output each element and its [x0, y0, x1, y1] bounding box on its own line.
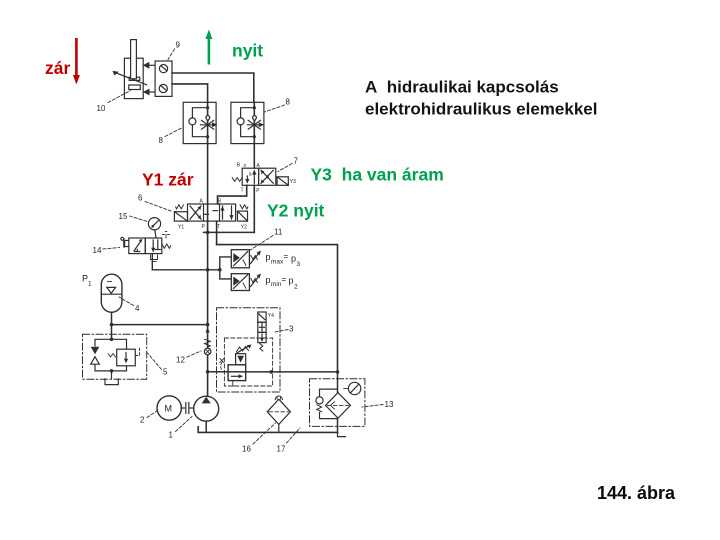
cooler U17 diamond — [326, 393, 351, 419]
pressure rail horizontal (valve6 P / valve7 P) — [204, 231, 255, 233]
label 10 — [97, 91, 131, 114]
node block5 outlet — [110, 369, 114, 373]
svg-text:p: p — [291, 254, 296, 264]
svg-text:5: 5 — [163, 368, 168, 377]
wire tee up to pmax switch — [220, 257, 232, 270]
accumulator rail to pump line — [112, 324, 208, 326]
label 5 — [148, 353, 169, 377]
cooler block U13 boundary (dash-dot) — [310, 379, 365, 427]
valve7 solenoid Y3 box — [277, 177, 296, 186]
wire valve7 T down-left to valve6 port B — [218, 185, 247, 204]
svg-text:4: 4 — [135, 304, 140, 313]
pilot relief valve upper box with poppet — [236, 354, 246, 365]
svg-text:13: 13 — [385, 400, 394, 409]
label 13 — [362, 400, 394, 409]
svg-text:3: 3 — [289, 325, 294, 334]
text pmax = p3 — [266, 252, 301, 268]
wire block9 to cylinder upper with arrowhead — [143, 62, 156, 69]
svg-text:14: 14 — [93, 246, 102, 255]
label 7 — [278, 157, 299, 172]
svg-text:min: min — [271, 281, 282, 288]
svg-text:6: 6 — [138, 194, 143, 203]
label 8 left — [159, 128, 183, 146]
valve6 spring + solenoid Y1 left — [174, 205, 187, 221]
valve14 push button actuator — [121, 237, 129, 246]
label 16 — [242, 423, 276, 454]
label 11 — [247, 228, 283, 253]
svg-text:P: P — [202, 224, 206, 230]
node relief rail mid — [269, 370, 273, 374]
svg-text:Y2: Y2 — [241, 225, 247, 231]
block5 bottom bar — [95, 365, 127, 371]
svg-text:8: 8 — [159, 136, 164, 145]
cooler bypass loop — [316, 389, 338, 419]
lever arrow through cylinder — [112, 71, 146, 85]
wire block9 right top to box8R — [172, 73, 254, 102]
tank rail bottom — [198, 427, 337, 433]
text Y4 — [268, 313, 274, 319]
svg-text:elektrohidraulikus elemekkel: elektrohidraulikus elemekkel — [365, 100, 597, 119]
pump suction line — [205, 421, 207, 432]
pressure gauge U15 — [148, 218, 160, 238]
svg-text:b: b — [267, 175, 270, 181]
svg-text:2: 2 — [140, 416, 145, 425]
label 12 — [176, 351, 201, 365]
svg-text:B: B — [237, 163, 241, 169]
svg-text:9: 9 — [176, 41, 181, 50]
node accumulator tee — [110, 323, 114, 327]
solenoid valve U6 (4/3, Y1/Y2) body — [188, 204, 236, 221]
solenoid valve Y4 stack — [258, 312, 266, 351]
svg-text:Y1 zár: Y1 zár — [142, 170, 194, 190]
pressure switch pmin — [231, 274, 261, 291]
cylinder body (valve 10) — [124, 58, 143, 98]
node relief rail right — [336, 370, 340, 374]
svg-text:15: 15 — [119, 212, 128, 221]
svg-text:=: = — [282, 275, 287, 284]
svg-text:T: T — [217, 224, 220, 230]
solenoid valve U7 (4/2, Y3) body — [242, 168, 276, 185]
block5 drain to tank — [111, 371, 113, 379]
gauge in cooler block — [344, 382, 361, 394]
svg-text:Y3: Y3 — [290, 179, 296, 185]
svg-text:1: 1 — [169, 431, 174, 440]
label 2 — [140, 410, 159, 425]
valve7 port labels — [237, 163, 270, 195]
svg-text:8: 8 — [286, 98, 291, 107]
check valve in block5 — [91, 347, 100, 364]
node P junction — [206, 231, 210, 235]
label 4 — [119, 297, 140, 313]
node pump line x relief rail — [206, 370, 210, 374]
valve14 vent symbol above spring — [163, 232, 170, 239]
svg-text:12: 12 — [176, 356, 185, 365]
block5 top bar — [95, 339, 127, 349]
pump pressure line vertical — [207, 232, 209, 396]
wire tee down to pmin switch — [220, 270, 232, 279]
svg-text:A hidraulikai kapcsolás: A hidraulikai kapcsolás — [365, 78, 559, 97]
throttle-check box 8 right — [231, 102, 264, 143]
wire valve7 P down to pressure rail — [253, 185, 255, 232]
text pmin = p2 — [266, 275, 299, 291]
svg-text:p: p — [266, 275, 271, 285]
svg-text:p: p — [266, 252, 271, 262]
svg-text:p: p — [289, 276, 294, 286]
pilot drain x symbol — [220, 359, 224, 371]
label 15 — [119, 212, 148, 222]
wire block9 right bottom to box8L — [172, 84, 208, 102]
svg-text:max: max — [271, 259, 284, 266]
node switch tee — [218, 268, 222, 272]
electric motor U2 — [157, 396, 181, 420]
throttle-check box 8 left — [183, 102, 217, 143]
node block5 inlet — [110, 338, 114, 342]
valve6 spring + solenoid Y2 right — [238, 205, 248, 221]
relief valve square in block5 — [108, 348, 140, 366]
valve7 spring left — [232, 178, 242, 182]
svg-text:Y2 nyit: Y2 nyit — [267, 201, 325, 221]
valve6 port labels — [178, 199, 247, 231]
tank symbol under block5 — [105, 379, 118, 385]
return rail to right column — [217, 245, 338, 372]
valve14 output rail to pressure switches — [152, 254, 220, 270]
svg-text:T: T — [241, 188, 244, 194]
svg-text:M: M — [165, 404, 173, 414]
flow arrowhead on pump line — [205, 328, 209, 333]
label 9 — [168, 41, 181, 60]
wire box8L down to valve6 port A — [207, 144, 209, 233]
cylinder rod — [131, 40, 137, 79]
cooler return vertical — [337, 372, 339, 432]
svg-text:Y3 ha van áram: Y3 ha van áram — [311, 165, 444, 185]
block3 inner pilot boundary (dashed) — [224, 338, 272, 386]
svg-text:Y4: Y4 — [268, 313, 274, 319]
label 17 — [277, 428, 301, 454]
svg-text:Y1: Y1 — [178, 225, 184, 231]
svg-text:nyit: nyit — [232, 41, 263, 61]
svg-text:144. ábra: 144. ábra — [597, 483, 676, 503]
wire box8R down to valve7 port A — [253, 144, 255, 169]
wire block9 to cylinder lower with arrowhead — [143, 89, 155, 96]
coupling motor-pump — [181, 403, 193, 414]
text P1 — [82, 274, 92, 288]
svg-text:a: a — [249, 172, 252, 178]
node pump line x accumulator rail — [206, 323, 210, 327]
arrow zar (red down arrow) — [73, 38, 80, 85]
wire valve6 T down to return rail — [216, 221, 218, 245]
svg-text:zár: zár — [45, 58, 70, 78]
label 8 right — [265, 98, 291, 113]
tank rail step right — [338, 432, 346, 436]
pressure switch U11 pmax — [231, 250, 261, 268]
svg-text:7: 7 — [294, 157, 299, 166]
svg-text:1: 1 — [88, 281, 92, 288]
svg-text:17: 17 — [277, 445, 286, 454]
main relief rail horizontal — [208, 371, 338, 373]
block U3 boundary (dash-dot) — [217, 308, 281, 392]
filter U16 — [267, 396, 290, 432]
node pump line x valve14 rail — [206, 268, 210, 272]
accumulator stem — [111, 312, 113, 339]
accumulator U4 — [101, 274, 122, 312]
valve14 spring right — [162, 244, 171, 248]
label 1 — [169, 417, 193, 440]
manual valve U14 (3/2) — [129, 238, 162, 254]
valve U12 on pump line (spring + ball) — [204, 339, 211, 355]
arrow nyit (green up arrow) — [205, 30, 212, 65]
svg-text:16: 16 — [242, 445, 251, 454]
pilot check block U9 — [155, 61, 172, 96]
valve14 exhaust symbol below — [151, 255, 158, 262]
svg-text:2: 2 — [294, 284, 298, 291]
label 6 — [138, 194, 171, 212]
svg-text:P: P — [256, 188, 260, 194]
hydraulic pump U1 — [194, 396, 219, 421]
svg-text:3: 3 — [297, 261, 301, 268]
label 14 — [93, 246, 120, 255]
relief valve drain L — [233, 381, 238, 387]
svg-text:10: 10 — [97, 104, 106, 113]
pilot relief valve in block3: spring arrow — [236, 345, 252, 354]
svg-text:=: = — [284, 252, 289, 261]
svg-text:11: 11 — [274, 228, 283, 237]
main relief valve box in block3 — [228, 365, 246, 381]
block U5 boundary (dash-dot) — [83, 334, 147, 379]
label 3 — [275, 325, 294, 334]
